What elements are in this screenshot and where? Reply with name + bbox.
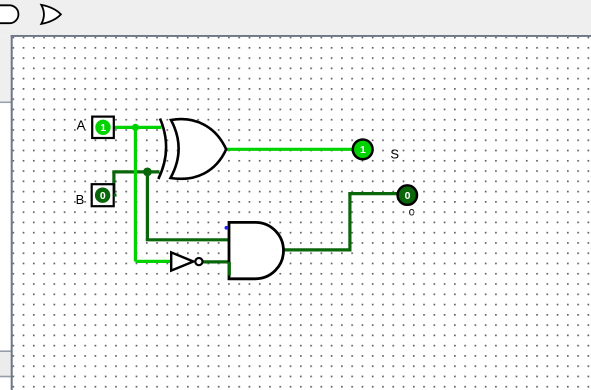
wire AND output up — [348, 194, 351, 252]
wire A branch to NOT input — [135, 260, 171, 263]
wire B pin to corner (vertical) — [112, 172, 115, 195]
input pin B box — [92, 184, 114, 206]
wire NOT output to AND lower input — [203, 260, 228, 263]
input pin A box — [92, 117, 114, 138]
wire B corner to XOR lower input — [112, 170, 159, 173]
input pin B connection nub — [114, 194, 117, 197]
junction A — [132, 124, 139, 131]
and gate U2 body — [229, 222, 283, 278]
wire AND input leg — [228, 262, 231, 276]
output LED S — [353, 140, 373, 160]
svg-text:1: 1 — [100, 122, 106, 134]
wire XOR output to S — [226, 148, 352, 151]
OR gate toolbar icon — [41, 5, 61, 24]
svg-text:c: c — [409, 207, 415, 219]
svg-text:0: 0 — [100, 190, 106, 202]
output LED C — [398, 185, 417, 204]
svg-text:1: 1 — [360, 144, 366, 156]
toolbar background — [0, 0, 591, 35]
junction B — [143, 168, 152, 177]
and gate floating input blue dot — [225, 226, 229, 230]
input pin A value circle — [95, 120, 110, 135]
svg-text:B: B — [76, 192, 85, 207]
wire A branch down — [134, 127, 137, 261]
left explorer pane upper grey block — [0, 35, 11, 102]
wire to C output — [348, 192, 397, 195]
svg-text:S: S — [390, 146, 399, 161]
svg-text:0: 0 — [405, 190, 411, 202]
input pin B value circle — [95, 188, 110, 203]
canvas top border — [11, 35, 591, 37]
xor gate U1 rear arc — [158, 119, 166, 180]
AND gate toolbar icon (cut off at left) — [0, 5, 18, 23]
left pane white area — [0, 103, 11, 390]
wire A pin to XOR upper input — [114, 126, 162, 129]
wire B branch to AND upper input — [146, 238, 229, 241]
not gate U3 triangle — [171, 252, 193, 270]
splitter vertical line — [11, 35, 13, 390]
svg-text:A: A — [77, 118, 86, 133]
wire AND output horizontal — [283, 248, 350, 251]
wire B branch down — [146, 172, 149, 240]
xor gate U1 body — [171, 119, 227, 179]
left scrollbar thumb block — [0, 351, 11, 378]
not gate U3 bubble — [195, 258, 202, 265]
